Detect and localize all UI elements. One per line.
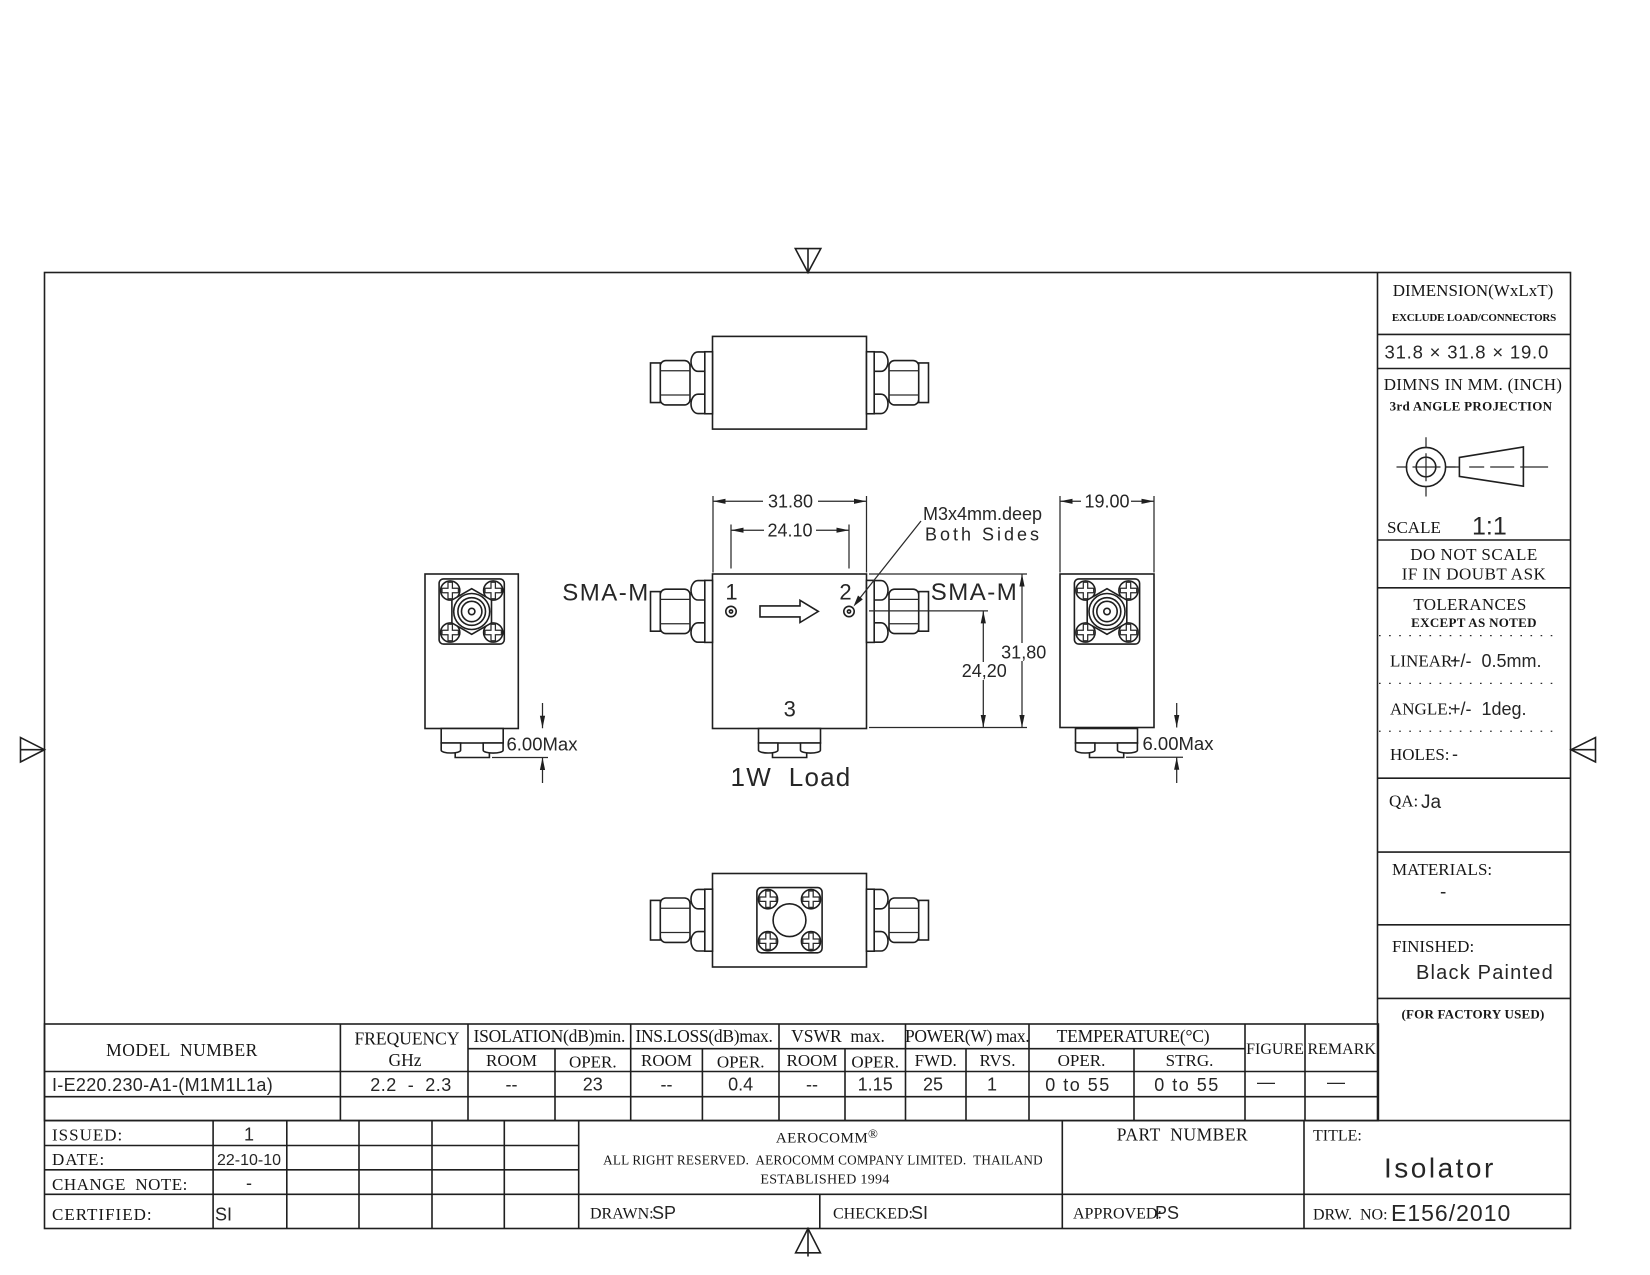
dimension 31,80 vertical xyxy=(869,574,1046,728)
table outline xyxy=(45,1024,1379,1121)
bottom view load flange xyxy=(757,888,822,953)
svg-text:ESTABLISHED 1994: ESTABLISHED 1994 xyxy=(760,1173,889,1188)
svg-text:DIMNS IN MM. (INCH): DIMNS IN MM. (INCH) xyxy=(1384,375,1563,394)
svg-text:CHANGE NOTE:: CHANGE NOTE: xyxy=(52,1175,188,1194)
svg-text:31,80: 31,80 xyxy=(1001,642,1046,662)
svg-text:EXCLUDE LOAD/CONNECTORS: EXCLUDE LOAD/CONNECTORS xyxy=(1392,312,1556,324)
svg-text:31.8 × 31.8 × 19.0: 31.8 × 31.8 × 19.0 xyxy=(1385,342,1550,363)
svg-text:ISSUED:: ISSUED: xyxy=(52,1126,123,1145)
svg-text:--: -- xyxy=(806,1075,818,1095)
svg-text:24.10: 24.10 xyxy=(767,521,812,541)
bottom view body xyxy=(713,874,867,968)
svg-text:DIMENSION(WxLxT): DIMENSION(WxLxT) xyxy=(1393,281,1554,300)
svg-text:Isolator: Isolator xyxy=(1384,1153,1496,1184)
svg-text:SI: SI xyxy=(911,1203,928,1223)
svg-text:Ja: Ja xyxy=(1421,792,1442,813)
svg-text:2: 2 xyxy=(839,580,851,605)
svg-text:IF IN DOUBT ASK: IF IN DOUBT ASK xyxy=(1402,565,1547,584)
svg-text:--: -- xyxy=(506,1075,518,1095)
svg-text:24,20: 24,20 xyxy=(962,661,1007,681)
svg-text:APPROVED:: APPROVED: xyxy=(1073,1206,1162,1223)
top centering mark xyxy=(795,249,821,273)
svg-text:25: 25 xyxy=(923,1075,943,1095)
svg-text:E156/2010: E156/2010 xyxy=(1391,1200,1511,1226)
svg-text:SMA-M: SMA-M xyxy=(931,579,1019,606)
left side view load xyxy=(441,729,503,758)
svg-text:TEMPERATURE(°C): TEMPERATURE(°C) xyxy=(1057,1026,1210,1046)
dimension 6.00Max left xyxy=(492,703,578,783)
svg-text:QA:: QA: xyxy=(1389,792,1418,811)
top view left SMA connector xyxy=(651,352,713,414)
svg-text:CHECKED:: CHECKED: xyxy=(833,1206,913,1223)
svg-text:SI: SI xyxy=(215,1205,232,1225)
svg-text:AEROCOMM: AEROCOMM xyxy=(776,1131,868,1147)
svg-text:—: — xyxy=(1327,1072,1345,1092)
svg-text:(FOR FACTORY USED): (FOR FACTORY USED) xyxy=(1401,1007,1544,1022)
svg-text:+/- 1deg.: +/- 1deg. xyxy=(1450,699,1527,719)
svg-text:1:1: 1:1 xyxy=(1472,513,1507,541)
svg-text:23: 23 xyxy=(583,1075,603,1095)
svg-text:OPER.: OPER. xyxy=(569,1053,617,1072)
left side view body xyxy=(425,574,518,729)
svg-text:HOLES:: HOLES: xyxy=(1390,745,1450,764)
dimension 19.00 horizontal xyxy=(1060,492,1154,573)
svg-text:-: - xyxy=(1440,882,1446,903)
svg-text:Black Painted: Black Painted xyxy=(1416,962,1554,984)
dimension 24,20 vertical xyxy=(869,611,1007,728)
svg-text:-: - xyxy=(1452,744,1458,764)
svg-text:OPER.: OPER. xyxy=(851,1053,899,1072)
svg-text:FIGURE: FIGURE xyxy=(1246,1041,1304,1058)
svg-text:1: 1 xyxy=(244,1125,254,1145)
svg-text:ISOLATION(dB)min.: ISOLATION(dB)min. xyxy=(473,1026,625,1046)
svg-text:ANGLE:: ANGLE: xyxy=(1390,700,1452,719)
svg-text:LINEAR:: LINEAR: xyxy=(1390,652,1457,671)
svg-text:STRG.: STRG. xyxy=(1166,1051,1214,1070)
svg-text:22-10-10: 22-10-10 xyxy=(217,1152,281,1169)
front view load xyxy=(759,729,821,758)
projection symbol cone xyxy=(1446,447,1549,486)
svg-text:PART NUMBER: PART NUMBER xyxy=(1117,1125,1248,1145)
right side view flange xyxy=(1074,579,1139,644)
bottom block grid xyxy=(45,1120,1571,1122)
right side view load xyxy=(1076,729,1138,758)
svg-text:0 to 55: 0 to 55 xyxy=(1045,1075,1111,1095)
svg-text:GHz: GHz xyxy=(388,1050,421,1070)
svg-text:MODEL NUMBER: MODEL NUMBER xyxy=(106,1040,258,1060)
svg-text:Both Sides: Both Sides xyxy=(925,525,1042,545)
svg-text:1: 1 xyxy=(987,1075,997,1095)
svg-text:19.00: 19.00 xyxy=(1084,492,1129,512)
bottom centering mark xyxy=(796,1229,821,1257)
svg-text:+/- 0.5mm.: +/- 0.5mm. xyxy=(1450,651,1542,671)
svg-text:ROOM: ROOM xyxy=(786,1051,837,1070)
svg-text:PS: PS xyxy=(1155,1203,1179,1223)
svg-text:6.00Max: 6.00Max xyxy=(1143,733,1215,754)
svg-text:EXCEPT AS NOTED: EXCEPT AS NOTED xyxy=(1411,615,1537,630)
svg-text:DRW. NO:: DRW. NO: xyxy=(1313,1207,1388,1224)
svg-text:0.4: 0.4 xyxy=(728,1075,753,1095)
svg-text:INS.LOSS(dB)max.: INS.LOSS(dB)max. xyxy=(635,1026,772,1046)
svg-text:1: 1 xyxy=(725,580,737,605)
svg-text:FREQUENCY: FREQUENCY xyxy=(354,1029,459,1049)
svg-text:ROOM: ROOM xyxy=(486,1051,537,1070)
svg-text:-: - xyxy=(246,1173,252,1193)
svg-text:3: 3 xyxy=(784,697,796,722)
port 1 hole xyxy=(726,606,736,616)
svg-text:DATE:: DATE: xyxy=(52,1150,105,1169)
title block outline xyxy=(1377,273,1379,1121)
svg-text:6.00Max: 6.00Max xyxy=(507,734,579,755)
dimension 31.80 horizontal xyxy=(713,492,867,573)
top view body xyxy=(713,336,867,429)
svg-text:VSWR max.: VSWR max. xyxy=(791,1026,885,1046)
svg-text:ALL RIGHT RESERVED. AEROCOMM: ALL RIGHT RESERVED. AEROCOMM COMPANY LIM… xyxy=(603,1153,1043,1168)
svg-text:DRAWN:: DRAWN: xyxy=(590,1206,654,1223)
bottom view right SMA connector xyxy=(867,889,929,951)
front view right SMA connector xyxy=(867,580,929,642)
svg-text:TOLERANCES: TOLERANCES xyxy=(1413,595,1526,614)
svg-text:2.2 - 2.3: 2.2 - 2.3 xyxy=(370,1075,452,1095)
svg-text:3rd ANGLE PROJECTION: 3rd ANGLE PROJECTION xyxy=(1390,399,1553,414)
front view left SMA connector xyxy=(651,580,713,642)
svg-text:OPER.: OPER. xyxy=(1058,1051,1106,1070)
projection symbol circle xyxy=(1397,437,1456,496)
svg-text:M3x4mm.deep: M3x4mm.deep xyxy=(923,504,1042,524)
svg-text:SCALE: SCALE xyxy=(1387,518,1441,537)
svg-text:I-E220.230-A1-(M1M1L1a): I-E220.230-A1-(M1M1L1a) xyxy=(52,1075,273,1095)
front view body xyxy=(713,574,867,729)
dimension 6.00Max right xyxy=(1126,703,1214,783)
svg-text:RVS.: RVS. xyxy=(980,1051,1016,1070)
svg-text:®: ® xyxy=(868,1126,878,1141)
svg-text:REMARK: REMARK xyxy=(1307,1041,1376,1058)
svg-text:OPER.: OPER. xyxy=(717,1053,765,1072)
svg-text:SMA-M: SMA-M xyxy=(562,580,650,607)
svg-text:FWD.: FWD. xyxy=(915,1051,957,1070)
bottom view left SMA connector xyxy=(651,889,713,951)
svg-text:TITLE:: TITLE: xyxy=(1313,1128,1362,1145)
svg-text:DO NOT SCALE: DO NOT SCALE xyxy=(1410,545,1538,564)
note M3x4mm.deep Both Sides xyxy=(854,504,1043,607)
port 2 hole xyxy=(844,606,854,616)
svg-text:1.15: 1.15 xyxy=(858,1075,893,1095)
svg-text:MATERIALS:: MATERIALS: xyxy=(1392,860,1492,879)
svg-text:1W Load: 1W Load xyxy=(731,762,852,792)
top view right SMA connector xyxy=(867,352,929,414)
flow arrow xyxy=(760,600,818,622)
right side view body xyxy=(1060,574,1154,728)
svg-text:FINISHED:: FINISHED: xyxy=(1392,937,1474,956)
svg-text:ROOM: ROOM xyxy=(641,1051,692,1070)
right centering mark xyxy=(1571,738,1596,763)
sheet border frame xyxy=(45,273,1571,1229)
dimension 24.10 horizontal xyxy=(731,521,849,569)
svg-text:—: — xyxy=(1257,1072,1275,1092)
left centering mark xyxy=(21,738,45,763)
svg-text:CERTIFIED:: CERTIFIED: xyxy=(52,1205,153,1224)
left side view flange xyxy=(439,579,504,644)
svg-text:0 to 55: 0 to 55 xyxy=(1154,1075,1220,1095)
svg-text:SP: SP xyxy=(652,1203,676,1223)
svg-text:POWER(W) max.: POWER(W) max. xyxy=(905,1026,1029,1046)
svg-text:--: -- xyxy=(661,1075,673,1095)
svg-text:31.80: 31.80 xyxy=(768,492,813,512)
